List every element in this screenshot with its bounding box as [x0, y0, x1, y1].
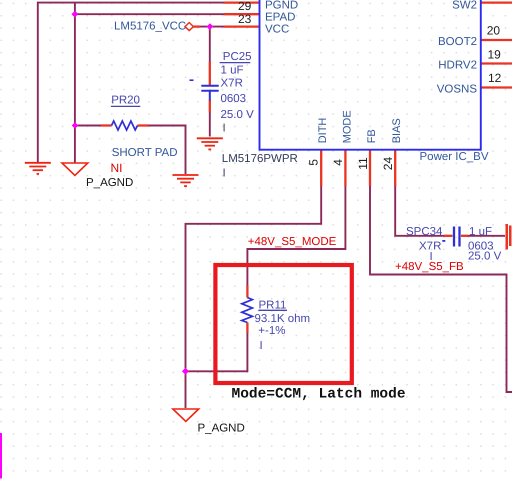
svg-text:25.0 V: 25.0 V: [468, 250, 502, 262]
svg-text:+48V_S5_MODE: +48V_S5_MODE: [248, 236, 337, 248]
svg-text:PGND: PGND: [265, 0, 298, 12]
svg-text:NI: NI: [111, 161, 123, 175]
svg-text:Power IC_BV: Power IC_BV: [420, 151, 489, 163]
svg-text:PR11: PR11: [259, 299, 287, 311]
svg-text:PR20: PR20: [111, 94, 140, 106]
svg-text:4: 4: [331, 159, 345, 166]
svg-text:I: I: [223, 123, 226, 135]
svg-text:VCC: VCC: [265, 24, 289, 36]
svg-text:25.0 V: 25.0 V: [221, 109, 255, 121]
svg-text:LM5176PWPR: LM5176PWPR: [222, 153, 298, 165]
svg-text:12: 12: [488, 71, 502, 85]
svg-text:24: 24: [381, 157, 395, 171]
svg-text:SW2: SW2: [452, 0, 477, 11]
svg-text:20: 20: [487, 24, 501, 38]
svg-text:LM5176_VCC: LM5176_VCC: [114, 20, 186, 32]
svg-text:0603: 0603: [221, 93, 247, 105]
svg-text:+-1%: +-1%: [258, 325, 285, 337]
svg-text:VOSNS: VOSNS: [437, 83, 478, 95]
svg-text:93.1K ohm: 93.1K ohm: [255, 313, 311, 325]
svg-text:Mode=CCM, Latch mode: Mode=CCM, Latch mode: [232, 386, 406, 402]
svg-text:HDRV2: HDRV2: [438, 59, 477, 71]
svg-text:P_AGND: P_AGND: [198, 423, 245, 435]
svg-text:BOOT2: BOOT2: [438, 36, 477, 48]
svg-text:1 uF: 1 uF: [469, 226, 492, 238]
svg-text:23: 23: [238, 12, 252, 26]
svg-text:19: 19: [488, 48, 502, 62]
svg-text:I: I: [223, 167, 226, 179]
svg-text:P_AGND: P_AGND: [86, 177, 133, 189]
svg-text:X7R: X7R: [221, 78, 243, 90]
svg-text:5: 5: [307, 159, 321, 166]
svg-text:FB: FB: [366, 129, 378, 143]
svg-text:11: 11: [356, 157, 370, 170]
svg-text:MODE: MODE: [341, 110, 353, 143]
svg-text:BIAS: BIAS: [391, 118, 403, 143]
svg-text:PC25: PC25: [223, 51, 252, 63]
svg-text:SPC34: SPC34: [406, 226, 443, 238]
svg-text:I: I: [260, 340, 263, 352]
svg-text:1 uF: 1 uF: [221, 64, 244, 76]
svg-text:DITH: DITH: [317, 118, 329, 144]
svg-text:SHORT PAD: SHORT PAD: [112, 147, 178, 159]
svg-text:EPAD: EPAD: [265, 11, 295, 23]
svg-text:+48V_S5_FB: +48V_S5_FB: [395, 261, 464, 273]
